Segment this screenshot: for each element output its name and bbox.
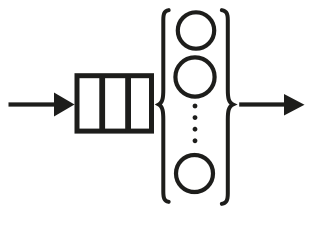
wire: departure arrow shaft <box>239 102 287 106</box>
queue box (buffer with 3 slots) <box>77 75 152 132</box>
vertical ellipsis dots <box>193 104 198 144</box>
departure arrowhead <box>284 94 305 116</box>
wire: input arrival arrow shaft <box>9 102 59 106</box>
left curly brace <box>159 10 169 202</box>
server circle 3 <box>176 155 213 192</box>
input arrival arrowhead <box>54 93 75 117</box>
server circle 1 <box>178 12 214 48</box>
right curly brace <box>222 10 233 204</box>
server circle 2 <box>175 57 214 96</box>
